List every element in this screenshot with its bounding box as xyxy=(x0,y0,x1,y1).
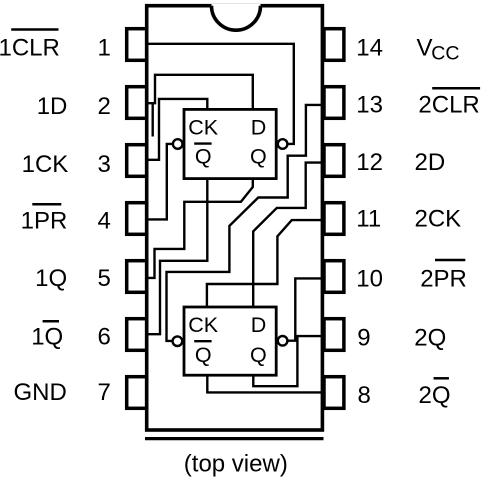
svg-text:GND: GND xyxy=(14,379,67,406)
U1 Qbar overline xyxy=(194,142,211,144)
U2 clear bubble (left) xyxy=(173,336,183,346)
U2 Qbar overline xyxy=(194,340,211,342)
svg-text:D: D xyxy=(251,313,267,337)
svg-text:1Q: 1Q xyxy=(35,265,67,292)
overline Q (pin 6) xyxy=(43,320,59,323)
svg-text:V: V xyxy=(417,35,433,62)
overline PR (pin 4) xyxy=(32,203,61,206)
IC body outline xyxy=(147,6,323,430)
pin 3 xyxy=(127,145,147,177)
flip-flop U2 box xyxy=(184,307,276,375)
bottom rule under package xyxy=(145,437,324,440)
wire 1D pin2 to FF1 D input xyxy=(147,75,253,109)
svg-text:(top view): (top view) xyxy=(184,451,288,478)
svg-text:12: 12 xyxy=(356,149,383,176)
svg-text:CC: CC xyxy=(431,42,459,64)
overline PR (pin 10) xyxy=(435,259,465,262)
pin 9 xyxy=(324,319,344,351)
svg-text:1Q: 1Q xyxy=(31,324,63,351)
svg-text:2CK: 2CK xyxy=(415,206,462,233)
overline CLR (pin 13) xyxy=(432,87,480,90)
svg-text:14: 14 xyxy=(356,35,383,62)
svg-text:Q: Q xyxy=(195,144,212,168)
svg-text:CK: CK xyxy=(188,115,219,139)
svg-text:5: 5 xyxy=(97,265,110,292)
svg-text:1PR: 1PR xyxy=(21,207,68,234)
svg-text:4: 4 xyxy=(97,207,110,234)
pin 5 xyxy=(127,261,147,293)
svg-text:2: 2 xyxy=(97,93,110,120)
wire stub below pin 2 joint xyxy=(151,104,153,137)
svg-text:2Q: 2Q xyxy=(419,382,451,409)
pin 10 xyxy=(324,261,344,293)
svg-text:Q: Q xyxy=(250,343,267,367)
pin 7 xyxy=(127,377,147,409)
overline CLR (pin 1) xyxy=(11,28,58,31)
svg-text:2PR: 2PR xyxy=(420,266,467,293)
svg-text:1CLR: 1CLR xyxy=(0,35,60,62)
wire 2Q FF2 Q output to pin9 xyxy=(253,336,321,386)
U1 preset bubble (left) xyxy=(173,139,183,149)
pin 1 xyxy=(127,29,147,61)
svg-text:6: 6 xyxy=(97,324,110,351)
wire 2D pin12 to FF2 D input xyxy=(253,163,321,307)
svg-text:8: 8 xyxy=(358,382,371,409)
wire 1Q FF1 Q output to pin5 xyxy=(147,179,253,278)
svg-text:2CLR: 2CLR xyxy=(418,92,479,119)
pin 14 xyxy=(324,29,344,61)
notch (pin-1 index) at top center xyxy=(212,4,261,30)
wire 1Qbar FF1 Qbar output to pin6 xyxy=(147,179,207,334)
pin 12 xyxy=(324,145,344,177)
wire 2PR pin10 to FF2 right bubble xyxy=(288,278,322,340)
flip-flop U1 box xyxy=(184,109,276,178)
U1 clear bubble (right) xyxy=(278,139,288,149)
svg-text:11: 11 xyxy=(356,206,381,233)
svg-text:Q: Q xyxy=(250,144,267,168)
svg-text:1: 1 xyxy=(97,35,110,62)
svg-text:2D: 2D xyxy=(415,149,446,176)
svg-text:13: 13 xyxy=(356,92,383,119)
svg-text:CK: CK xyxy=(188,313,219,337)
pin 4 xyxy=(127,203,147,235)
U2 preset bubble (right) xyxy=(278,336,288,346)
pin 8 xyxy=(324,377,344,409)
svg-text:3: 3 xyxy=(97,151,110,178)
wire 2Qbar FF2 Qbar output to pin8 xyxy=(207,376,321,393)
svg-text:2Q: 2Q xyxy=(414,325,446,352)
svg-text:D: D xyxy=(251,115,267,139)
pin 6 xyxy=(127,319,147,351)
wire 2CLR pin13 to FF2 left bubble xyxy=(167,105,322,341)
wire 1PR pin4 to FF1 left bubble xyxy=(147,144,173,220)
svg-text:1CK: 1CK xyxy=(22,151,69,178)
pin 2 xyxy=(127,87,147,119)
wire 2CK pin11 to FF2 CK input xyxy=(207,220,321,306)
pin 11 xyxy=(324,203,344,235)
wire 1CLR pin1 to FF1 right bubble xyxy=(147,44,294,144)
svg-text:9: 9 xyxy=(357,325,370,352)
svg-text:7: 7 xyxy=(97,379,110,406)
svg-text:10: 10 xyxy=(356,266,383,293)
pin 13 xyxy=(324,87,344,119)
svg-text:Q: Q xyxy=(195,343,212,367)
svg-text:1D: 1D xyxy=(37,93,68,120)
overline Q (pin 8) xyxy=(434,377,449,380)
wire 1CK pin3 to FF1 CK input xyxy=(147,99,207,160)
